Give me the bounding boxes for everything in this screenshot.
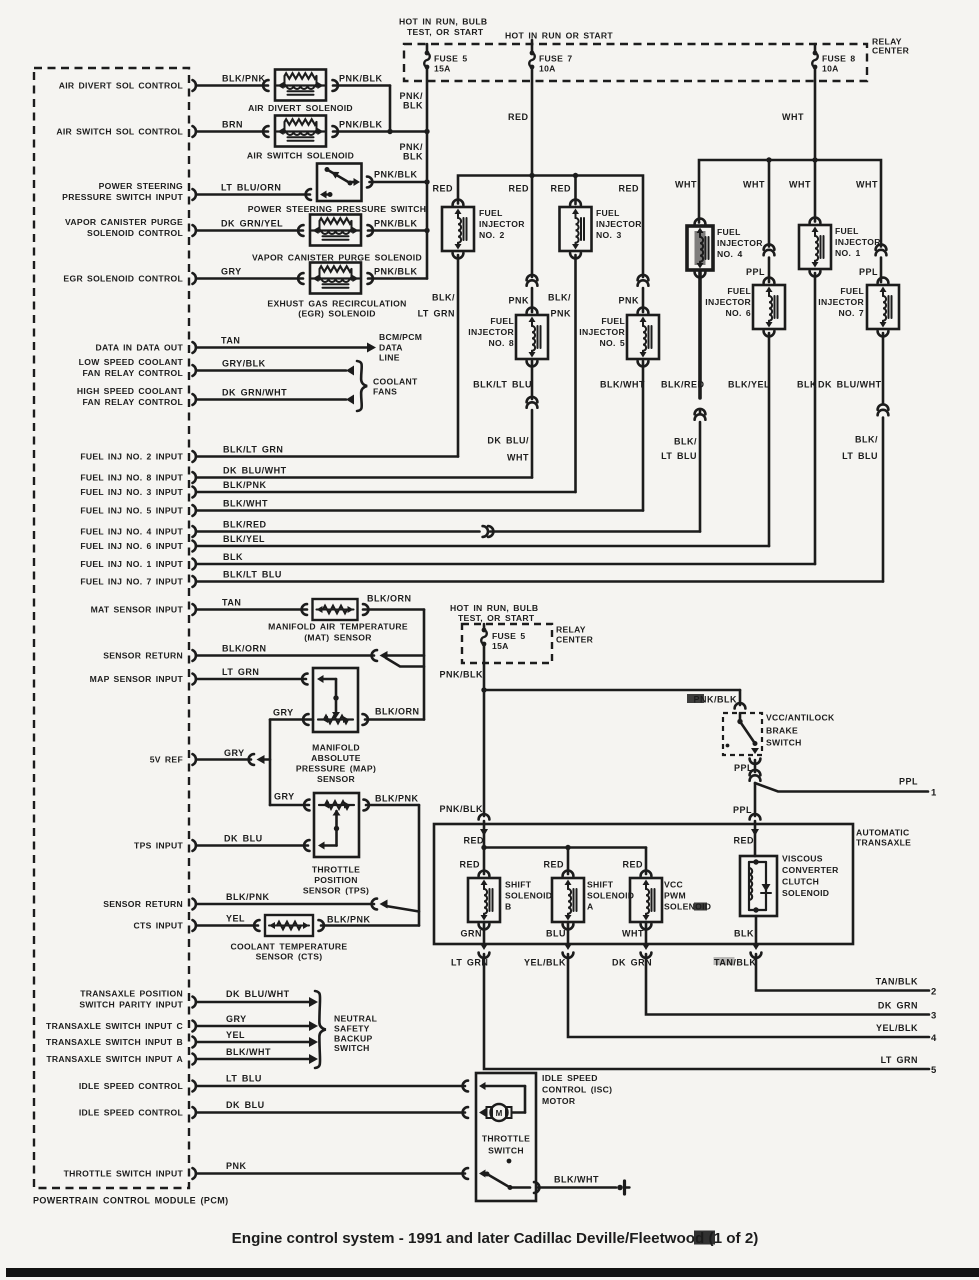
MAP 5V feed wire [270,718,313,721]
svg-text:WHT: WHT [743,180,765,190]
svg-text:WHT: WHT [789,180,811,190]
svg-text:PPL: PPL [859,267,878,277]
svg-text:PNK/BLK: PNK/BLK [339,74,383,84]
svg-text:PNK: PNK [618,296,639,306]
svg-text:DK BLU: DK BLU [226,1100,265,1110]
svg-text:DK BLU/WHT: DK BLU/WHT [818,380,882,390]
svg-text:RED: RED [463,836,484,846]
svg-text:SWITCH: SWITCH [334,1043,370,1053]
low speed coolant fan wire [197,369,346,372]
svg-text:TRANSAXLE SWITCH INPUT B: TRANSAXLE SWITCH INPUT B [46,1037,183,1047]
injector 1 return BLK [814,273,817,564]
svg-text:BLK/ORN: BLK/ORN [375,707,420,717]
svg-text:POSITION: POSITION [314,875,357,885]
svg-text:MAP SENSOR INPUT: MAP SENSOR INPUT [90,674,184,684]
svg-text:SENSOR RETURN: SENSOR RETURN [103,651,183,661]
svg-text:GRY: GRY [273,708,294,718]
svg-text:DK GRN: DK GRN [612,958,652,968]
svg-text:ABSOLUTE: ABSOLUTE [311,753,361,763]
svg-text:LT BLU: LT BLU [226,1074,262,1084]
fuel injector no 2 [442,207,474,251]
svg-text:4: 4 [931,1033,937,1044]
svg-text:PNK/BLK: PNK/BLK [374,219,418,229]
svg-text:FUSE 5: FUSE 5 [492,631,526,641]
svg-text:YEL/BLK: YEL/BLK [524,958,566,968]
svg-text:DATA: DATA [379,343,403,353]
svg-text:FUEL: FUEL [601,316,625,326]
GRY vertical bus [269,720,272,806]
svg-text:BLK: BLK [223,552,243,562]
svg-text:RELAY: RELAY [556,625,586,635]
svg-text:(MAT) SENSOR: (MAT) SENSOR [304,633,372,643]
svg-text:SOLENOID: SOLENOID [505,891,552,901]
svg-text:AIR DIVERT SOLENOID: AIR DIVERT SOLENOID [248,103,353,113]
TPS input wire DK BLU [197,844,308,847]
svg-text:BLU: BLU [546,929,566,939]
fuel injector no 6 [753,285,785,329]
svg-text:PNK/BLK: PNK/BLK [440,804,484,814]
CTS input wire YEL [197,924,258,927]
svg-text:AUTOMATIC: AUTOMATIC [856,828,909,838]
injector 5 return BLK/WHT [642,361,645,511]
svg-text:LT GRN: LT GRN [451,958,488,968]
svg-text:FUEL: FUEL [596,208,620,218]
svg-text:BLK/LT BLU: BLK/LT BLU [223,570,282,580]
svg-text:TAN: TAN [222,598,241,608]
MAP sensor input wire LT GRN [197,678,306,681]
relay center dashed box [404,44,867,81]
air divert solenoid [275,70,326,101]
svg-text:CLUTCH: CLUTCH [782,877,819,887]
svg-text:DK BLU: DK BLU [224,834,263,844]
svg-text:FUEL INJ NO. 1 INPUT: FUEL INJ NO. 1 INPUT [80,559,183,569]
svg-text:BLK/RED: BLK/RED [661,380,705,390]
shift solenoid B [468,878,500,922]
svg-text:BRN: BRN [222,120,243,130]
air switch solenoid [275,116,326,147]
svg-text:PNK/BLK: PNK/BLK [374,267,418,277]
svg-text:SOLENOID: SOLENOID [587,891,634,901]
BCM/PCM data line [197,346,368,349]
fuse 7 [531,40,534,53]
viscous coil bumps [749,868,752,900]
svg-text:GRY/BLK: GRY/BLK [222,359,266,369]
splice symbol [617,1185,623,1191]
neutral safety backup switch brace [315,991,326,1068]
svg-text:LT BLU/ORN: LT BLU/ORN [221,183,281,193]
MAT sensor input wire [197,608,307,611]
svg-text:WHT: WHT [507,453,529,463]
fuse 5 [426,44,429,53]
svg-text:INJECTOR: INJECTOR [717,238,763,248]
svg-text:YEL/BLK: YEL/BLK [876,1023,918,1033]
svg-text:FUSE 5: FUSE 5 [434,54,468,64]
svg-text:5V REF: 5V REF [150,755,183,765]
svg-text:TRANSAXLE: TRANSAXLE [856,838,911,848]
PPL branch to connector 1 [755,783,928,792]
svg-text:TRANSAXLE SWITCH INPUT A: TRANSAXLE SWITCH INPUT A [46,1054,183,1064]
RED bus from fuse 7 [531,67,534,277]
svg-text:BLK/LT GRN: BLK/LT GRN [223,445,283,455]
svg-text:PRESSURE (MAP): PRESSURE (MAP) [296,764,376,774]
svg-text:PPL: PPL [733,805,752,815]
svg-text:NO. 5: NO. 5 [599,338,625,348]
svg-text:MANIFOLD: MANIFOLD [312,743,360,753]
5V REF wire [197,758,251,761]
svg-text:PNK: PNK [550,309,571,319]
svg-text:AIR SWITCH SOLENOID: AIR SWITCH SOLENOID [247,151,354,161]
svg-text:PNK: PNK [508,296,529,306]
svg-text:POWER STEERING PRESSURE SWITCH: POWER STEERING PRESSURE SWITCH [248,204,427,214]
svg-text:CENTER: CENTER [872,46,910,56]
svg-text:INJECTOR: INJECTOR [468,327,514,337]
fuel injector no 4 (bold) [687,226,713,270]
svg-text:FUSE 7: FUSE 7 [539,54,573,64]
CTS output wire [321,924,419,927]
svg-text:BLK/PNK: BLK/PNK [327,915,371,925]
svg-text:THROTTLE: THROTTLE [482,1134,530,1144]
svg-text:HOT IN RUN, BULB: HOT IN RUN, BULB [450,603,538,613]
svg-text:15A: 15A [434,64,451,74]
svg-text:RED: RED [432,184,453,194]
svg-text:FUEL: FUEL [727,286,751,296]
power steering pressure switch [197,193,310,196]
svg-text:HOT IN RUN OR START: HOT IN RUN OR START [505,31,613,41]
svg-text:M: M [496,1109,503,1118]
svg-text:FANS: FANS [373,387,397,397]
sensor return row 1 [197,654,374,657]
svg-text:POWER STEERING: POWER STEERING [99,181,183,191]
svg-text:SAFETY: SAFETY [334,1024,370,1034]
svg-text:TRANSAXLE POSITION: TRANSAXLE POSITION [80,989,183,999]
RED bus in transaxle [484,846,646,849]
svg-text:HIGH SPEED COOLANT: HIGH SPEED COOLANT [77,386,184,396]
svg-text:FUEL: FUEL [835,226,859,236]
svg-text:SHIFT: SHIFT [587,880,614,890]
svg-text:PPL: PPL [899,777,918,787]
svg-text:FUEL: FUEL [490,316,514,326]
wire row 1 air divert [197,84,268,87]
VCC PWM solenoid [630,878,662,922]
svg-text:NO. 8: NO. 8 [488,338,514,348]
sensor return row 2 [197,903,374,906]
svg-text:INJECTOR: INJECTOR [835,237,881,247]
svg-text:AIR SWITCH SOL CONTROL: AIR SWITCH SOL CONTROL [56,127,183,137]
BLK/WHT wire to splice [537,1186,616,1189]
svg-text:YEL: YEL [226,1030,245,1040]
svg-text:CENTER: CENTER [556,635,594,645]
svg-text:RED: RED [508,184,529,194]
svg-text:FUEL: FUEL [840,286,864,296]
MAP potentiometer resistor [318,718,353,720]
svg-text:NO. 3: NO. 3 [596,230,622,240]
vapor canister purge solenoid [310,215,361,246]
MAP sensor box [313,668,358,732]
svg-text:SOLENOID: SOLENOID [782,888,829,898]
svg-text:BLK/WHT: BLK/WHT [554,1175,599,1185]
svg-text:5: 5 [931,1065,937,1076]
injector 3 feed [574,176,577,205]
svg-text:PNK/BLK: PNK/BLK [374,170,418,180]
svg-text:BLK/PNK: BLK/PNK [222,74,266,84]
bottom scan bar [6,1268,979,1277]
svg-text:IDLE SPEED CONTROL: IDLE SPEED CONTROL [79,1108,183,1118]
svg-text:RED: RED [543,860,564,870]
svg-text:B: B [505,902,512,912]
svg-text:VCC/ANTILOCK: VCC/ANTILOCK [766,713,835,723]
svg-text:RED: RED [622,860,643,870]
svg-text:INJECTOR: INJECTOR [479,219,525,229]
svg-text:LT GRN: LT GRN [881,1055,918,1065]
wire row vapor canister purge [197,229,303,232]
PPL below switch [750,759,761,764]
svg-text:GRY: GRY [226,1014,247,1024]
MAP output wire BLK/ORN [365,718,424,721]
injector 8 return [531,361,534,399]
svg-text:VAPOR CANISTER PURGE SOLENOID: VAPOR CANISTER PURGE SOLENOID [252,253,422,263]
TPS resistor [319,804,354,806]
svg-text:BLK/ORN: BLK/ORN [367,594,412,604]
svg-text:FAN RELAY CONTROL: FAN RELAY CONTROL [82,397,183,407]
svg-text:SWITCH PARITY INPUT: SWITCH PARITY INPUT [79,1000,183,1010]
svg-text:PNK/: PNK/ [399,91,423,101]
svg-text:INJECTOR: INJECTOR [705,297,751,307]
junction dots [387,129,392,134]
svg-text:RED: RED [550,184,571,194]
svg-text:LOW SPEED COOLANT: LOW SPEED COOLANT [79,357,184,367]
svg-text:INJECTOR: INJECTOR [596,219,642,229]
svg-text:BLK/PNK: BLK/PNK [375,794,419,804]
svg-text:MANIFOLD AIR TEMPERATURE: MANIFOLD AIR TEMPERATURE [268,622,408,632]
PNK/BLK entry arrow [480,829,488,836]
svg-text:FUEL INJ NO. 8 INPUT: FUEL INJ NO. 8 INPUT [80,473,183,483]
svg-text:PNK: PNK [226,1161,247,1171]
svg-text:BLK/LT BLU: BLK/LT BLU [473,380,532,390]
svg-text:FUEL: FUEL [717,227,741,237]
svg-text:BLK/: BLK/ [432,293,455,303]
svg-text:WHT: WHT [675,180,697,190]
svg-text:AIR DIVERT SOL CONTROL: AIR DIVERT SOL CONTROL [59,81,183,91]
svg-text:PNK/: PNK/ [399,142,423,152]
svg-text:CONTROL (ISC): CONTROL (ISC) [542,1085,612,1095]
svg-text:10A: 10A [539,64,556,74]
svg-text:LT BLU: LT BLU [661,451,697,461]
fuel injector no 3 [560,207,592,251]
svg-text:BLK: BLK [403,152,423,162]
svg-text:BLK/ORN: BLK/ORN [222,644,267,654]
PPL entry arrow [751,829,759,836]
svg-text:BLK/PNK: BLK/PNK [223,480,267,490]
svg-text:DK GRN/YEL: DK GRN/YEL [221,219,283,229]
svg-text:A: A [587,902,594,912]
svg-text:BLK/RED: BLK/RED [223,520,267,530]
svg-text:LT GRN: LT GRN [222,667,259,677]
PNK/BLK feed from fuse 5 [426,67,429,279]
svg-text:PNK/BLK: PNK/BLK [440,670,484,680]
svg-text:IDLE SPEED CONTROL: IDLE SPEED CONTROL [79,1081,183,1091]
PNK/BLK feed down [483,644,486,690]
svg-text:PRESSURE SWITCH INPUT: PRESSURE SWITCH INPUT [62,192,183,202]
svg-text:2: 2 [931,987,937,998]
svg-text:EXHUST GAS RECIRCULATION: EXHUST GAS RECIRCULATION [267,299,406,309]
svg-text:LINE: LINE [379,353,400,363]
svg-text:HOT IN RUN, BULB: HOT IN RUN, BULB [399,17,487,27]
wire row EGR [197,277,303,280]
svg-text:WHT: WHT [856,180,878,190]
svg-text:DK GRN/WHT: DK GRN/WHT [222,388,287,398]
svg-text:IDLE SPEED: IDLE SPEED [542,1073,598,1083]
automatic transaxle box [434,824,853,944]
PCM row connectors and pin labels [193,80,196,91]
idle speed control wire 1 [197,1085,465,1088]
shift solenoid A [552,878,584,922]
svg-text:INJECTOR: INJECTOR [579,327,625,337]
fuel injector no 7 [867,285,899,329]
svg-text:EGR SOLENOID CONTROL: EGR SOLENOID CONTROL [63,274,183,284]
PNK/BLK wire to VCC switch [484,689,740,692]
svg-text:SHIFT: SHIFT [505,880,532,890]
svg-text:DK BLU/: DK BLU/ [487,436,529,446]
svg-text:TPS INPUT: TPS INPUT [134,841,183,851]
svg-text:BRAKE: BRAKE [766,726,798,736]
wire row 2 air switch [197,130,268,133]
injector 3 return BLK/PNK [574,255,577,492]
svg-text:SWITCH: SWITCH [488,1146,524,1156]
injector 7 return BLK/LT BLU [882,333,885,404]
injector 6 return BLK/YEL [768,333,771,546]
svg-text:GRY: GRY [221,267,242,277]
svg-text:WHT: WHT [622,929,644,939]
injector 6 feed PPL [768,160,771,247]
svg-text:BLK: BLK [403,101,423,111]
svg-text:FUEL INJ NO. 3 INPUT: FUEL INJ NO. 3 INPUT [80,487,183,497]
svg-text:BLK: BLK [734,929,754,939]
svg-text:FUEL INJ NO. 7 INPUT: FUEL INJ NO. 7 INPUT [80,577,183,587]
svg-text:TAN: TAN [221,336,240,346]
svg-text:NEUTRAL: NEUTRAL [334,1014,377,1024]
svg-text:NO. 7: NO. 7 [838,308,864,318]
PCM dashed box (Powertrain Control Module) [34,68,189,1188]
svg-text:NO. 1: NO. 1 [835,248,861,258]
TPS feed wire GRY [270,804,309,807]
svg-text:DK BLU/WHT: DK BLU/WHT [223,466,287,476]
svg-text:YEL: YEL [226,914,245,924]
EGR solenoid [310,263,361,294]
svg-text:FUEL: FUEL [479,208,503,218]
svg-text:NO. 4: NO. 4 [717,249,743,259]
svg-text:POWERTRAIN CONTROL MODULE (PCM: POWERTRAIN CONTROL MODULE (PCM) [33,1196,229,1206]
svg-text:BACKUP: BACKUP [334,1034,373,1044]
svg-text:SOLENOID CONTROL: SOLENOID CONTROL [87,228,183,238]
fuel injector no 5 [627,315,659,359]
svg-text:DK BLU/WHT: DK BLU/WHT [226,989,290,999]
svg-text:SENSOR: SENSOR [317,774,356,784]
svg-text:Engine control system - 1991 a: Engine control system - 1991 and later C… [232,1230,759,1247]
CTS sensor [265,915,313,936]
svg-text:VISCOUS: VISCOUS [782,854,823,864]
fuel injector no 8 [516,315,548,359]
transaxle position switch rows [197,1001,310,1004]
svg-text:BLK/WHT: BLK/WHT [226,1047,271,1057]
ISC motor symbol [491,1104,508,1121]
svg-text:BLK/: BLK/ [855,435,878,445]
high speed coolant fan wire [197,398,346,401]
svg-text:THROTTLE: THROTTLE [312,865,360,875]
svg-text:TEST, OR START: TEST, OR START [407,27,484,37]
injector 2 return BLK/LT GRN [457,255,460,457]
svg-text:BLK/WHT: BLK/WHT [600,380,645,390]
throttle switch input wire [197,1172,465,1175]
svg-text:SENSOR RETURN: SENSOR RETURN [103,899,183,909]
svg-text:FUEL INJ NO. 5 INPUT: FUEL INJ NO. 5 INPUT [80,506,183,516]
svg-text:PWM: PWM [664,891,686,901]
svg-text:BLK/WHT: BLK/WHT [223,499,268,509]
svg-text:BLK/PNK: BLK/PNK [226,892,270,902]
MAP return diagonal [386,658,424,667]
MAT return wire to vertical bus [363,608,424,611]
transaxle outputs [483,922,486,944]
svg-text:COOLANT TEMPERATURE: COOLANT TEMPERATURE [231,942,348,952]
MAT sensor [313,599,358,620]
svg-text:RED: RED [459,860,480,870]
svg-text:(EGR) SOLENOID: (EGR) SOLENOID [298,309,375,319]
svg-text:FAN RELAY CONTROL: FAN RELAY CONTROL [82,368,183,378]
svg-text:GRY: GRY [274,792,295,802]
svg-text:WHT: WHT [782,112,804,122]
svg-text:COOLANT: COOLANT [373,377,418,387]
svg-text:TAN/BLK: TAN/BLK [876,977,918,987]
svg-text:MOTOR: MOTOR [542,1096,576,1106]
svg-text:RED: RED [618,184,639,194]
svg-text:INJECTOR: INJECTOR [818,297,864,307]
fuse 5 (second) [483,624,486,630]
svg-text:15A: 15A [492,641,509,651]
svg-text:BLK: BLK [797,380,817,390]
svg-text:BCM/PCM: BCM/PCM [379,332,422,342]
TPS output wire [366,804,419,807]
svg-text:CONVERTER: CONVERTER [782,865,839,875]
svg-text:1: 1 [931,788,937,799]
VCC/antilock brake switch dashed box [723,713,762,755]
svg-text:FUSE 8: FUSE 8 [822,54,856,64]
svg-text:GRN: GRN [461,929,483,939]
svg-text:MAT SENSOR INPUT: MAT SENSOR INPUT [91,605,184,615]
svg-text:NO. 2: NO. 2 [479,230,505,240]
svg-text:RED: RED [733,836,754,846]
svg-text:10A: 10A [822,64,839,74]
svg-text:NO. 6: NO. 6 [725,308,751,318]
injector 4 return BLK/RED with inline connector [698,272,702,398]
svg-text:LT BLU: LT BLU [842,451,878,461]
coolant fans brace [357,361,367,411]
svg-text:BLK/: BLK/ [548,293,571,303]
WHT bus from fuse 8 [814,67,817,222]
svg-text:PNK/BLK: PNK/BLK [339,120,383,130]
ISC motor box [476,1073,536,1201]
svg-text:VAPOR CANISTER PURGE: VAPOR CANISTER PURGE [65,217,183,227]
svg-text:THROTTLE SWITCH INPUT: THROTTLE SWITCH INPUT [64,1169,184,1179]
svg-text:DATA IN DATA OUT: DATA IN DATA OUT [96,343,184,353]
svg-text:FUEL INJ NO. 6 INPUT: FUEL INJ NO. 6 INPUT [80,541,183,551]
svg-text:SENSOR (CTS): SENSOR (CTS) [256,952,323,962]
svg-text:3: 3 [931,1011,937,1022]
svg-text:RED: RED [508,112,529,122]
svg-text:PPL: PPL [746,267,765,277]
idle speed control wire 2 [197,1111,465,1114]
TPS wiper [335,811,338,846]
svg-text:SWITCH: SWITCH [766,738,802,748]
viscous converter clutch solenoid [740,856,777,916]
